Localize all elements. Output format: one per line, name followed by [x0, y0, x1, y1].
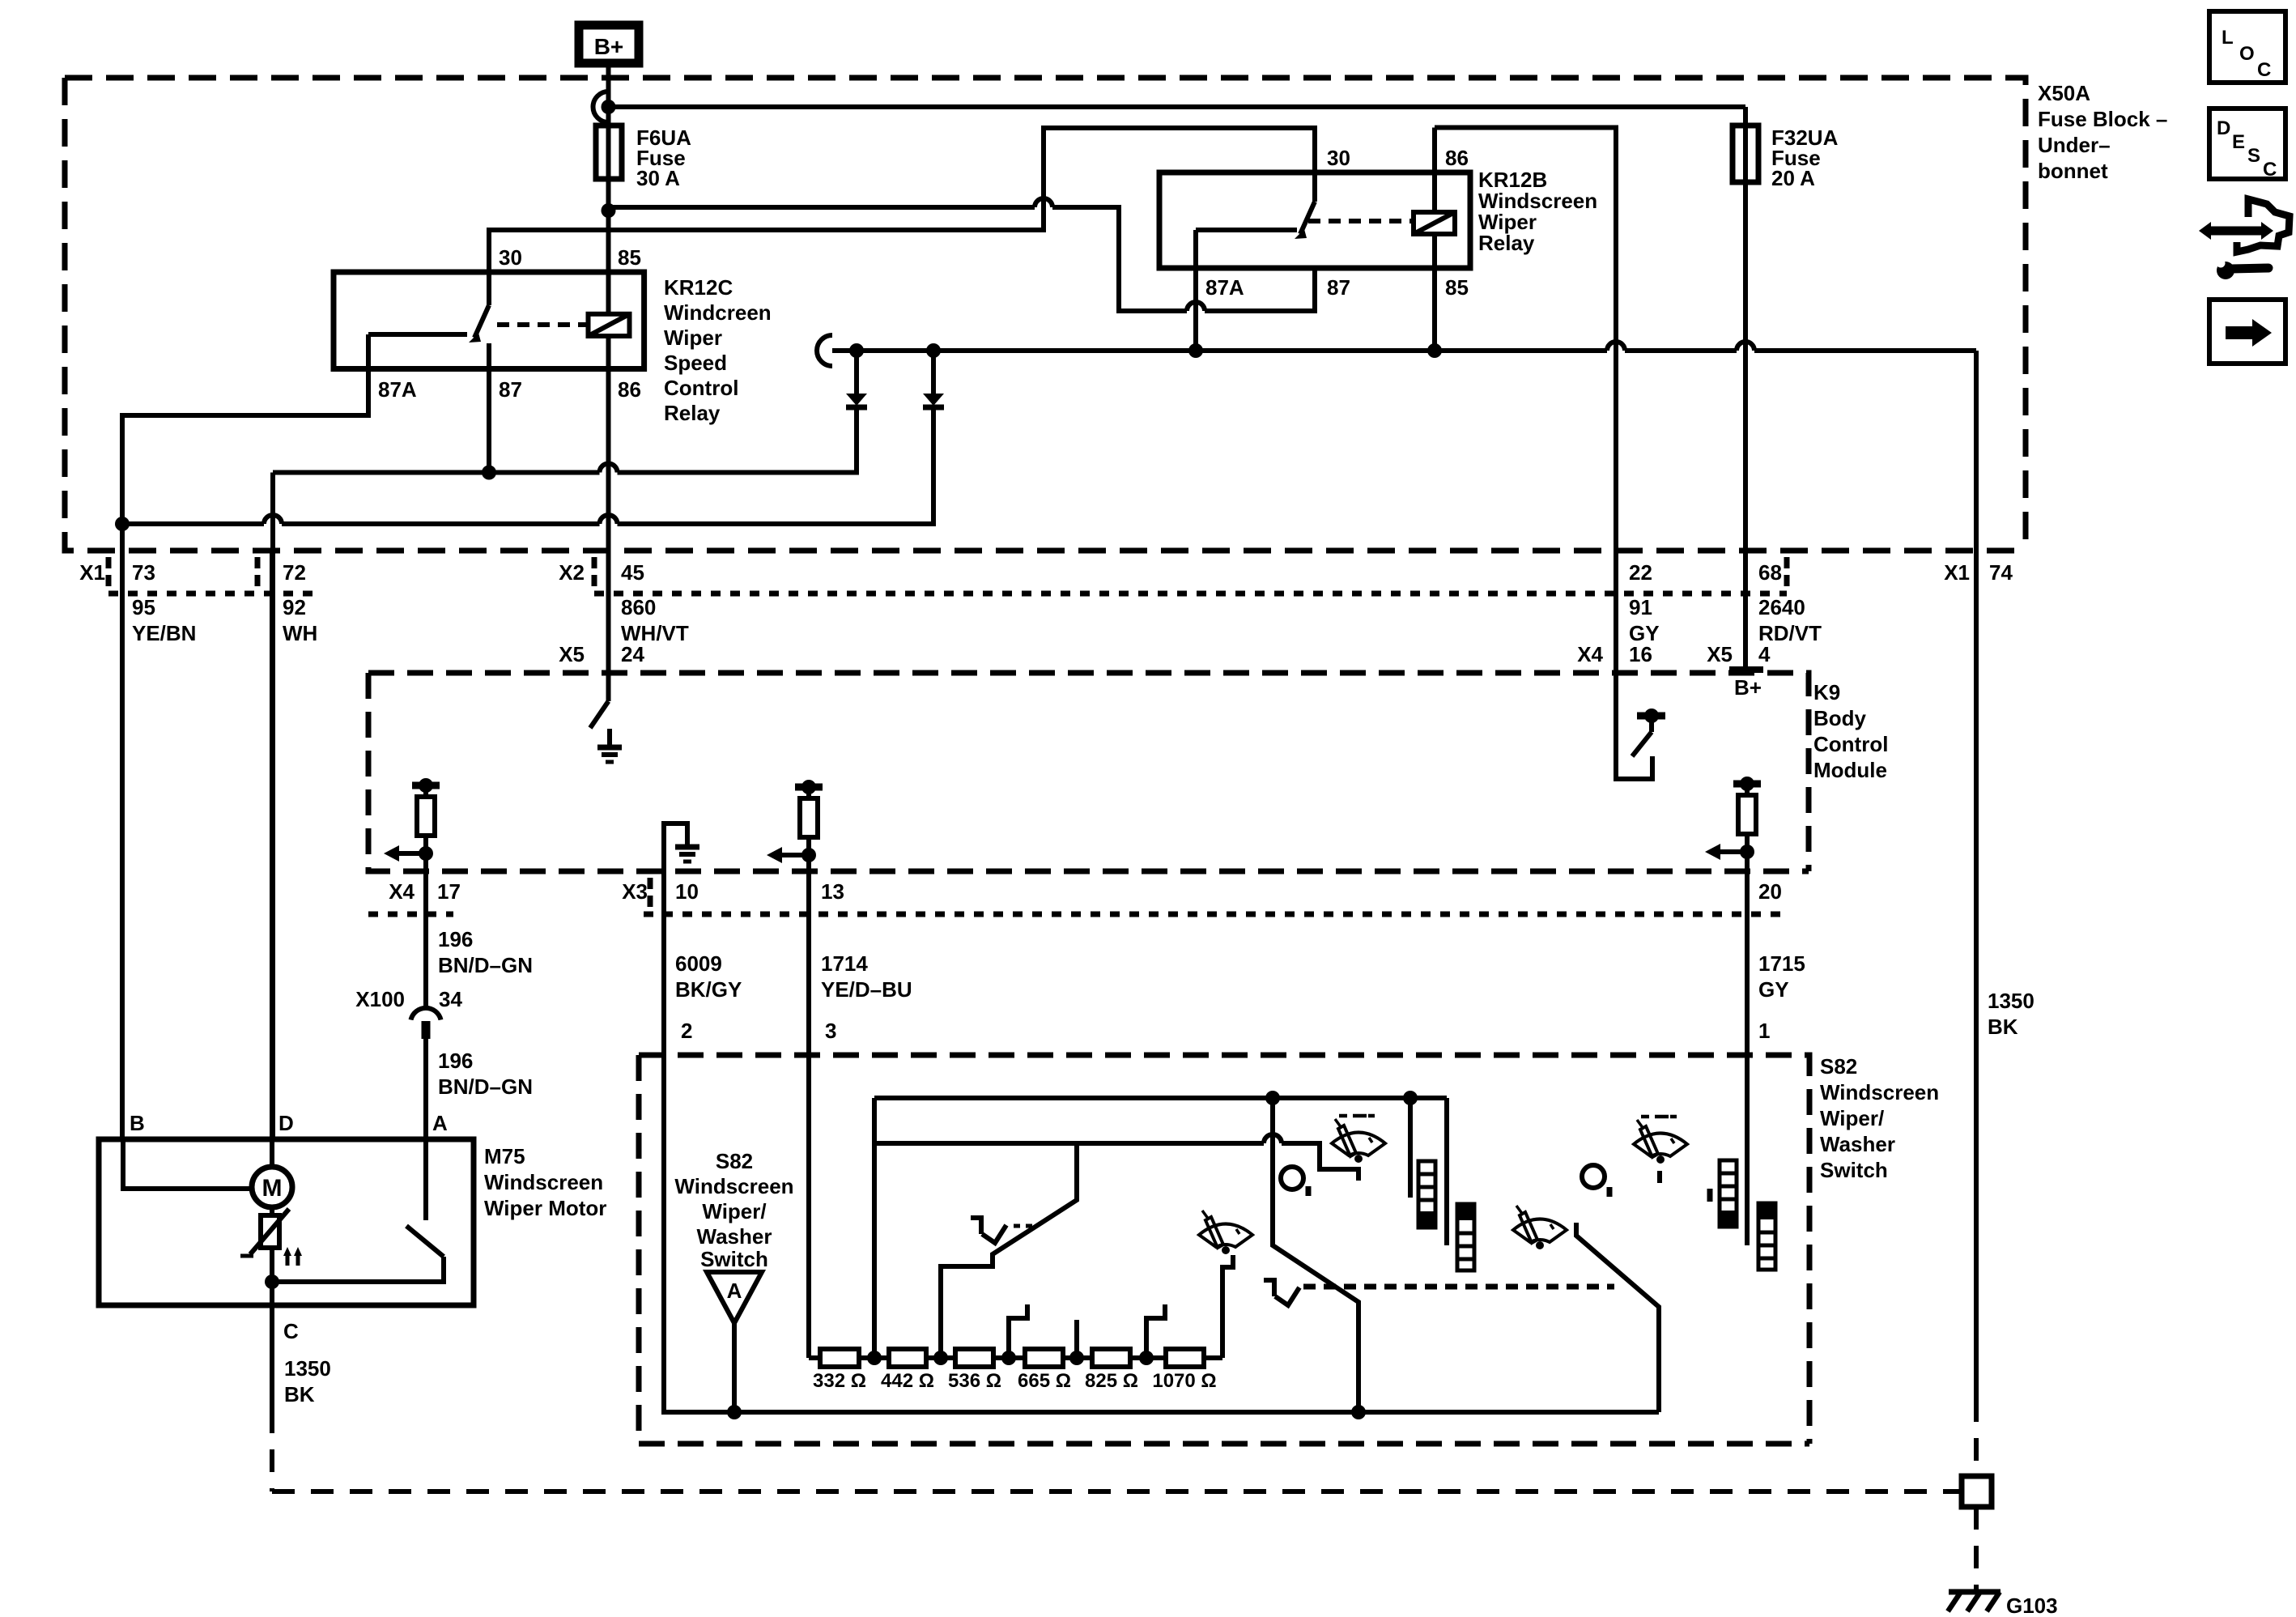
switch S82 dashed box [639, 1055, 1809, 1444]
node junction dot below fuse [602, 203, 616, 218]
diode D1 [854, 348, 859, 394]
svg-text:87: 87 [499, 377, 522, 402]
svg-text:1715: 1715 [1758, 951, 1805, 976]
svg-text:BK: BK [284, 1382, 315, 1406]
S82 wiper icon top right [1634, 1117, 1687, 1164]
svg-text:Windscreen: Windscreen [1820, 1080, 1939, 1104]
svg-text:X50A: X50A [2038, 81, 2090, 105]
svg-text:X3: X3 [622, 879, 648, 904]
svg-text:X1: X1 [79, 560, 105, 585]
svg-text:M: M [262, 1175, 283, 1202]
sidebar wrench icon [2231, 268, 2268, 269]
svg-text:WH: WH [283, 621, 317, 645]
svg-text:17: 17 [437, 879, 461, 904]
svg-text:X4: X4 [389, 879, 415, 904]
connector dotted line top row left [108, 591, 319, 597]
svg-text:86: 86 [618, 377, 641, 402]
svg-text:Washer: Washer [697, 1224, 772, 1249]
svg-text:30: 30 [499, 245, 522, 270]
connector squiggle on B+ wire [593, 91, 609, 122]
svg-text:Washer: Washer [1820, 1132, 1895, 1156]
svg-text:S: S [2247, 145, 2260, 167]
svg-text:6009: 6009 [675, 951, 722, 976]
svg-text:D: D [278, 1111, 294, 1135]
svg-text:45: 45 [621, 560, 644, 585]
wire 6009 BK/GY and S82 left bus [664, 871, 1659, 1412]
svg-text:Relay: Relay [664, 401, 721, 425]
connector separator X1 73 [106, 557, 112, 586]
svg-text:72: 72 [283, 560, 306, 585]
resistor 442 [889, 1349, 926, 1367]
svg-text:4: 4 [1758, 642, 1771, 666]
ground G103 [1949, 1589, 2000, 1595]
wire A y583.5 pin87 net to diode 1 [273, 406, 857, 473]
svg-text:86: 86 [1445, 146, 1469, 170]
svg-text:30 A: 30 A [636, 166, 680, 190]
chain contact hooks [1009, 1304, 1027, 1358]
relay KR12B box [1159, 172, 1470, 268]
svg-text:Wiper/: Wiper/ [1820, 1106, 1884, 1130]
connector separator 68 [1784, 557, 1790, 586]
svg-text:Relay: Relay [1478, 231, 1535, 255]
svg-text:X2: X2 [559, 560, 585, 585]
svg-text:M75: M75 [484, 1144, 525, 1168]
svg-text:C: C [2257, 59, 2271, 81]
relay KR12B pin87 wire [1312, 268, 1317, 311]
sidebar DESC box [2209, 109, 2285, 179]
svg-text:B+: B+ [594, 34, 624, 59]
relay KR12B mechanical link dashed [1308, 219, 1412, 223]
svg-text:825 Ω: 825 Ω [1085, 1370, 1138, 1392]
connector dotted line top row right [594, 591, 1787, 597]
diode D2 [931, 348, 936, 394]
wire below thermal with junction [270, 1248, 274, 1282]
svg-text:E: E [2232, 131, 2245, 153]
svg-text:S82: S82 [716, 1149, 753, 1173]
svg-text:Speed: Speed [664, 351, 727, 375]
svg-text:G103: G103 [2006, 1594, 2058, 1617]
BCM driver X3-13 [767, 780, 823, 863]
svg-text:BN/D–GN: BN/D–GN [438, 953, 533, 977]
wire 196 BN/D-GN lower [423, 1039, 428, 1139]
svg-text:1350: 1350 [284, 1356, 331, 1381]
svg-text:73: 73 [132, 560, 155, 585]
svg-text:KR12C: KR12C [664, 275, 733, 300]
wire 95 YE/BN into pin B [123, 1139, 252, 1189]
wire 1714 YE/D-BU [806, 855, 811, 1358]
connector squiggle on diode bus [817, 335, 832, 366]
svg-text:1350: 1350 [1988, 989, 2035, 1013]
dashed route to G103 [272, 1411, 1962, 1491]
S82 triangle A device [707, 1272, 762, 1323]
svg-text:BN/D–GN: BN/D–GN [438, 1074, 533, 1099]
svg-text:YE/D–BU: YE/D–BU [821, 977, 912, 1002]
svg-text:Wiper Motor: Wiper Motor [484, 1196, 606, 1220]
S82 dashed internal line [1303, 1284, 1614, 1290]
sidebar arrow box [2209, 300, 2285, 364]
svg-text:BK: BK [1988, 1015, 2018, 1039]
S82 wash switch right arm [1576, 1223, 1659, 1412]
svg-text:X4: X4 [1577, 642, 1603, 666]
relay KR12C box [334, 272, 644, 369]
sidebar LOC box [2209, 11, 2285, 83]
S82 washer pump circle 1 [1281, 1167, 1303, 1189]
wire KR12C pin30 to KR12B pin30 [489, 128, 1315, 272]
relay KR12B pin85 wire [1432, 234, 1437, 351]
svg-text:A: A [432, 1111, 448, 1135]
wire 1350 BK [1974, 351, 1979, 1399]
svg-text:BK/GY: BK/GY [675, 977, 742, 1002]
svg-text:C: C [283, 1319, 299, 1343]
svg-text:Windscreen: Windscreen [674, 1174, 793, 1198]
svg-text:87A: 87A [378, 377, 417, 402]
BCM driver X4-17 [384, 778, 440, 862]
svg-text:X1: X1 [1944, 560, 1970, 585]
S82 Tv delay 2 [1264, 1278, 1299, 1305]
svg-text:10: 10 [675, 879, 699, 904]
svg-text:X5: X5 [559, 642, 585, 666]
S82 top internal line [874, 1096, 1447, 1100]
module K9 BCM dashed box [368, 673, 1809, 871]
relay KR12B 87A contact [1196, 230, 1297, 351]
motor M75 arrows [287, 1254, 298, 1266]
fuse F32UA [1733, 126, 1758, 182]
svg-text:2640: 2640 [1758, 595, 1805, 619]
chain right end hook [1222, 1255, 1233, 1358]
svg-text:Module: Module [1813, 758, 1887, 782]
svg-text:196: 196 [438, 1049, 473, 1073]
connector X100 [411, 1008, 441, 1020]
svg-text:Switch: Switch [700, 1247, 768, 1271]
wire 92 WH vertical [270, 473, 275, 1140]
S82 wiper icon middle right [1513, 1206, 1567, 1249]
wire B+ main vertical 751 [606, 63, 611, 701]
S82 selector arm [941, 1143, 1077, 1358]
svg-text:665 Ω: 665 Ω [1018, 1370, 1071, 1392]
svg-text:13: 13 [821, 879, 844, 904]
wire 1715 GY [1745, 852, 1750, 1245]
svg-text:34: 34 [439, 987, 462, 1011]
svg-text:20 A: 20 A [1771, 166, 1815, 190]
svg-text:92: 92 [283, 595, 306, 619]
S82 bar stacks [1418, 1161, 1435, 1228]
svg-text:Body: Body [1813, 706, 1867, 730]
svg-text:85: 85 [618, 245, 641, 270]
B+ terminal box [579, 25, 639, 63]
svg-text:YE/BN: YE/BN [132, 621, 196, 645]
svg-text:87A: 87A [1205, 275, 1244, 300]
svg-text:Switch: Switch [1820, 1158, 1888, 1182]
svg-text:D: D [2217, 117, 2230, 139]
wire y433 diode bus [832, 342, 1976, 351]
S82 wiper icon middle left [1199, 1211, 1252, 1254]
S82 second internal line [874, 1134, 1358, 1181]
svg-text:X5: X5 [1707, 642, 1733, 666]
S82 resistor chain line [809, 1355, 1222, 1360]
resistor 825 [1092, 1349, 1130, 1367]
svg-text:K9: K9 [1813, 680, 1840, 704]
svg-text:2: 2 [681, 1019, 692, 1043]
terminal bar B+ BCM [1729, 666, 1763, 673]
relay KR12C 87A contact [122, 334, 467, 1139]
svg-text:bonnet: bonnet [2038, 159, 2108, 183]
node junction dot B+ top [602, 100, 616, 114]
svg-text:442 Ω: 442 Ω [881, 1370, 934, 1392]
svg-text:68: 68 [1758, 560, 1782, 585]
fuse F6UA [596, 126, 622, 179]
ground symbol in BCM [607, 729, 612, 747]
motor M75 box [99, 1139, 474, 1305]
wire C 1350 BK [270, 1282, 274, 1411]
BCM driver X5-20 [1705, 777, 1761, 860]
relay KR12C coil [589, 314, 630, 336]
BCM ground for wire 6009 [664, 823, 687, 871]
S82 wash wipe branch [1273, 1098, 1358, 1412]
resistor 1070 [1166, 1349, 1204, 1367]
svg-text:B+: B+ [1734, 675, 1762, 700]
S82 wiper icon top center [1332, 1116, 1385, 1163]
svg-text:16: 16 [1629, 642, 1652, 666]
svg-text:1714: 1714 [821, 951, 868, 976]
svg-text:Under–: Under– [2038, 133, 2111, 157]
resistor 332 [820, 1349, 859, 1367]
svg-text:30: 30 [1327, 146, 1350, 170]
motor M75 symbol [252, 1167, 292, 1207]
connector square to G103 [1962, 1476, 1992, 1507]
svg-text:1: 1 [1758, 1019, 1770, 1043]
svg-text:Control: Control [1813, 732, 1888, 756]
svg-text:Fuse Block –: Fuse Block – [2038, 107, 2167, 131]
S82 Tv delay 1 [971, 1215, 1006, 1243]
relay KR12C pin87 wire [487, 343, 491, 473]
relay KR12B switch arm [1300, 172, 1315, 234]
S82 washer pump circle 2 [1582, 1165, 1605, 1188]
connector separator 72 [255, 557, 261, 586]
svg-text:3: 3 [825, 1019, 836, 1043]
wire y256 B+ branch to KR12B 87 [609, 198, 1316, 311]
svg-text:Wiper/: Wiper/ [702, 1199, 766, 1223]
svg-text:C: C [2263, 159, 2277, 181]
fuse block X50A dashed box [65, 78, 2026, 551]
relay KR12B coil [1414, 212, 1455, 234]
relay KR12C switch arm [474, 272, 489, 338]
relay KR12B pin86 wire to wire 91 [1435, 128, 1652, 780]
svg-text:Control: Control [664, 376, 738, 400]
svg-text:S82: S82 [1820, 1054, 1857, 1079]
connector separator X3 10 [648, 878, 653, 907]
chain junction dots [867, 1351, 882, 1365]
BCM switch for wire 22 [1637, 713, 1665, 720]
svg-text:Wiper: Wiper [664, 326, 722, 350]
svg-text:A: A [727, 1279, 742, 1303]
svg-text:24: 24 [621, 642, 644, 666]
connector dotted line BCM X3 long [644, 912, 1790, 917]
svg-text:91: 91 [1629, 595, 1652, 619]
resistor 536 [955, 1349, 993, 1367]
svg-text:O: O [2239, 43, 2255, 65]
svg-text:GY: GY [1758, 977, 1789, 1002]
sidebar connector icon [2211, 227, 2261, 236]
svg-text:Windcreen: Windcreen [664, 300, 772, 325]
svg-text:332 Ω: 332 Ω [813, 1370, 866, 1392]
svg-text:87: 87 [1327, 275, 1350, 300]
svg-text:1070 Ω: 1070 Ω [1152, 1370, 1216, 1392]
svg-text:536 Ω: 536 Ω [948, 1370, 1001, 1392]
motor M75 thermal element [261, 1215, 279, 1248]
motor M75 park switch [272, 1226, 444, 1282]
wire B y647 87A net to diode 2 [122, 406, 933, 524]
svg-text:20: 20 [1758, 879, 1782, 904]
connector dotted line BCM X4 [368, 912, 453, 917]
BCM ground switch for wire 860 [590, 701, 609, 728]
svg-text:L: L [2222, 27, 2234, 49]
svg-text:196: 196 [438, 927, 473, 951]
svg-text:95: 95 [132, 595, 155, 619]
wire main horizontal y132 to F32UA [609, 104, 1746, 109]
svg-text:74: 74 [1989, 560, 2013, 585]
wire 196 BN/D-GN upper [423, 853, 428, 1006]
wire 2640 RD/VT [1743, 107, 1748, 670]
svg-text:860: 860 [621, 595, 656, 619]
svg-text:Windscreen: Windscreen [484, 1170, 603, 1194]
svg-text:X100: X100 [355, 987, 405, 1011]
svg-text:B: B [130, 1111, 145, 1135]
svg-text:85: 85 [1445, 275, 1469, 300]
resistor 665 [1025, 1349, 1063, 1367]
svg-text:22: 22 [1629, 560, 1652, 585]
connector separator X2 45 [592, 557, 597, 586]
relay KR12C mechanical link dashed [497, 322, 588, 327]
